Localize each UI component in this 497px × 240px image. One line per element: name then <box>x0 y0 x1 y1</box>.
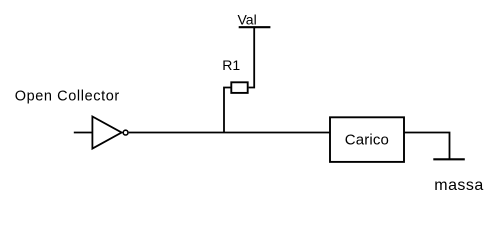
wire R1 left lead down to output node <box>224 88 231 133</box>
resistor R1 body <box>231 82 247 93</box>
load box Carico <box>330 117 404 162</box>
svg-text:Val: Val <box>238 12 257 28</box>
wire Carico to ground <box>404 133 450 160</box>
wire input to inverter <box>74 132 93 134</box>
svg-text:R1: R1 <box>222 57 240 73</box>
power rail Val bar <box>239 26 271 28</box>
wire R1 right lead up to Val rail <box>249 27 255 88</box>
svg-text:Carico: Carico <box>345 132 389 149</box>
inverter gate (open-collector driver) <box>92 117 121 149</box>
svg-text:Open Collector: Open Collector <box>15 89 120 105</box>
svg-text:massa: massa <box>434 177 483 194</box>
wire inverter output to Carico box <box>129 132 330 134</box>
inverter output bubble <box>123 130 128 135</box>
ground bar (massa) <box>433 158 465 160</box>
